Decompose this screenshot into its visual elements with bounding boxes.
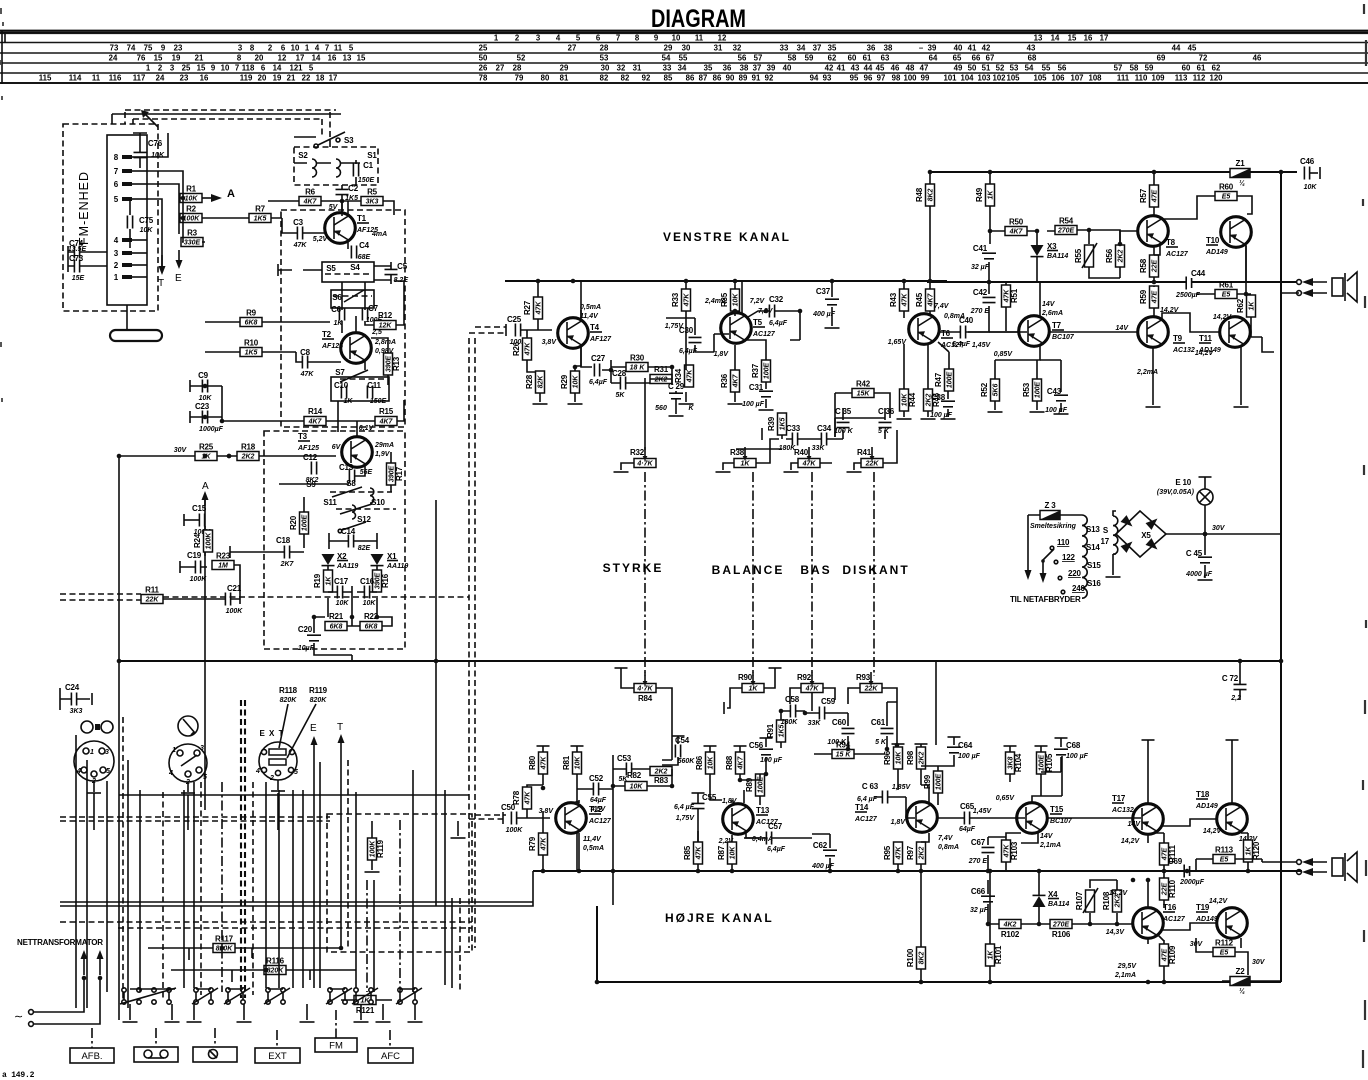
capacitor C59	[808, 697, 836, 727]
capacitor C68	[1054, 749, 1068, 755]
R52 R53 C43 grounds	[995, 360, 1061, 412]
svg-text:1: 1	[90, 749, 94, 756]
svg-text:10K: 10K	[199, 395, 213, 402]
svg-text:R29: R29	[560, 374, 569, 389]
capacitor C55	[692, 803, 705, 808]
svg-text:A: A	[227, 188, 235, 200]
svg-text:10K: 10K	[1304, 184, 1318, 191]
svg-text:C57: C57	[768, 822, 783, 831]
bus dashdot x222	[221, 782, 223, 992]
svg-text:AFC: AFC	[381, 1051, 400, 1062]
svg-text:X2: X2	[337, 552, 347, 561]
svg-text:C15: C15	[192, 504, 207, 513]
svg-text:R44: R44	[908, 392, 917, 407]
ground C45	[1198, 579, 1213, 581]
svg-text:47K: 47K	[686, 369, 693, 384]
capacitor C6	[331, 305, 345, 327]
resistor R62	[1236, 295, 1256, 317]
transistor T2	[321, 330, 396, 363]
transistor T10	[1205, 217, 1251, 256]
ground C31	[759, 409, 774, 411]
svg-text:C5: C5	[397, 262, 408, 271]
svg-text:C61: C61	[871, 718, 886, 727]
pin7 bus	[147, 171, 183, 242]
switch bank EXT	[264, 988, 290, 1004]
capacitor C5	[385, 262, 409, 284]
svg-text:1,75V: 1,75V	[676, 815, 696, 822]
svg-text:47K: 47K	[540, 837, 547, 852]
terminal bar C24	[91, 693, 93, 705]
svg-text:6,4µF: 6,4µF	[952, 341, 971, 348]
capacitor C18	[276, 536, 295, 568]
ground C37	[825, 327, 840, 329]
C14 wires	[329, 533, 377, 549]
svg-text:R103: R103	[1010, 841, 1019, 860]
svg-text:E: E	[310, 723, 317, 734]
T2 emitter to R13	[364, 359, 366, 370]
T1 collector up	[341, 213, 343, 216]
arrow E	[175, 250, 183, 284]
svg-text:2K7: 2K7	[280, 561, 295, 568]
resistor R46	[924, 389, 942, 411]
capacitor C25	[507, 315, 527, 346]
svg-text:R86: R86	[695, 755, 704, 770]
svg-text:R81: R81	[562, 755, 571, 770]
terminal bar C15	[183, 514, 185, 526]
svg-text:C13: C13	[339, 463, 354, 472]
C46 lead	[1310, 172, 1318, 174]
svg-text:S8: S8	[346, 479, 356, 488]
fuse Z 3	[1040, 501, 1060, 520]
resistor R119 (panel)	[368, 838, 386, 860]
ground bar C68	[1055, 737, 1068, 739]
svg-text:2K2: 2K2	[654, 377, 668, 384]
svg-text:C43: C43	[1047, 387, 1062, 396]
transistor T4	[558, 304, 612, 348]
svg-text:C64: C64	[958, 741, 973, 750]
svg-text:R40: R40	[794, 448, 809, 457]
antenna input arrow	[141, 110, 158, 127]
capacitor C2	[336, 184, 359, 202]
bus wire x184	[183, 790, 185, 988]
svg-text:T1: T1	[357, 214, 367, 223]
svg-text:30V: 30V	[174, 447, 188, 454]
svg-text:R52: R52	[980, 382, 989, 397]
svg-text:T11: T11	[1199, 334, 1212, 343]
ground R41	[847, 471, 862, 473]
svg-text:R99: R99	[923, 774, 932, 789]
svg-text:5: 5	[294, 769, 298, 776]
lamp E 10	[1157, 478, 1213, 505]
resistor R121	[354, 996, 376, 1016]
svg-text:Z2: Z2	[1236, 967, 1246, 976]
svg-text:R113: R113	[1215, 846, 1234, 855]
svg-text:T6: T6	[941, 329, 951, 338]
svg-text:47K: 47K	[695, 846, 702, 861]
svg-text:100K: 100K	[183, 216, 201, 223]
svg-text:C69: C69	[1168, 857, 1183, 866]
svg-text:14V: 14V	[1116, 325, 1130, 332]
R121 wires	[341, 999, 392, 1001]
svg-text:4: 4	[255, 768, 260, 775]
svg-text:C66: C66	[971, 887, 986, 896]
C18 wires	[230, 551, 304, 553]
svg-text:47K: 47K	[524, 791, 531, 806]
resistor R85	[683, 842, 703, 864]
ground R46	[921, 418, 936, 420]
resistor R35	[720, 289, 740, 311]
svg-text:1,8V: 1,8V	[891, 819, 907, 826]
resistor R82	[625, 771, 647, 791]
svg-text:220: 220	[1068, 569, 1081, 578]
svg-text:15 K: 15 K	[836, 752, 852, 759]
svg-text:0,5mA: 0,5mA	[583, 845, 604, 852]
dash-dot stems to label boxes	[92, 1010, 390, 1048]
R91 wires	[780, 713, 782, 748]
svg-text:4K7: 4K7	[737, 755, 744, 770]
svg-text:R53: R53	[1022, 382, 1031, 397]
capacitor C33	[792, 433, 797, 446]
record player icon	[178, 716, 198, 736]
svg-text:R93: R93	[856, 673, 871, 682]
svg-text:14,2V: 14,2V	[1209, 898, 1229, 905]
svg-text:AC132: AC132	[1172, 347, 1195, 354]
svg-text:T10: T10	[1206, 236, 1220, 245]
svg-text:2K2: 2K2	[1117, 249, 1124, 263]
svg-text:47K: 47K	[895, 846, 902, 861]
mains input terminals	[14, 978, 100, 1026]
svg-text:47K: 47K	[540, 756, 547, 771]
terminal bar C50	[502, 812, 504, 824]
svg-text:DIAGRAM: DIAGRAM	[651, 5, 746, 33]
resistor R53	[1022, 379, 1042, 401]
resistor R18	[237, 443, 259, 461]
C66 wires	[987, 880, 989, 924]
svg-text:5 K: 5 K	[875, 739, 887, 746]
svg-text:∼: ∼	[14, 1011, 23, 1023]
capacitor C35	[837, 422, 850, 427]
switch ground stem x244	[243, 1004, 245, 1020]
svg-text:R18: R18	[241, 443, 256, 452]
svg-text:R17: R17	[395, 466, 404, 481]
svg-text:C4: C4	[359, 241, 370, 250]
svg-text:T17: T17	[1112, 794, 1126, 803]
ground R38	[716, 471, 731, 473]
svg-text:AF125: AF125	[297, 445, 319, 452]
lead C57 to T13	[744, 837, 759, 839]
R100 wires	[920, 871, 922, 982]
svg-text:5 K: 5 K	[878, 428, 890, 435]
svg-text:Smeltesikring: Smeltesikring	[1030, 523, 1077, 530]
svg-text:E5: E5	[1220, 950, 1229, 957]
C40 wires	[940, 331, 1019, 333]
label box AFC	[368, 1048, 413, 1063]
switch box S6	[331, 290, 374, 308]
svg-text:S4: S4	[350, 263, 360, 272]
svg-text:R87: R87	[717, 845, 726, 860]
speaker terminal L2	[1297, 291, 1302, 296]
svg-text:4·7K: 4·7K	[636, 461, 653, 468]
svg-text:10K: 10K	[151, 152, 165, 159]
pin 2	[114, 261, 147, 270]
svg-text:R25: R25	[199, 443, 214, 452]
svg-text:R79: R79	[528, 836, 537, 851]
C50 to T12	[517, 809, 550, 818]
ground bar R90	[769, 667, 782, 669]
bus wire x374	[373, 880, 375, 992]
svg-text:4K2: 4K2	[1003, 922, 1017, 929]
lamp top bar	[1199, 476, 1212, 478]
bus dashed x460	[459, 898, 461, 990]
svg-text:47K: 47K	[535, 301, 542, 316]
R9 R10 leads	[205, 322, 330, 352]
R50 wires	[990, 230, 1037, 232]
svg-text:R12: R12	[378, 311, 393, 320]
bus wire x303	[302, 790, 304, 988]
svg-text:R9: R9	[246, 309, 257, 318]
svg-text:150E: 150E	[370, 398, 387, 405]
pin 1	[114, 273, 147, 282]
svg-text:C27: C27	[591, 354, 606, 363]
rail to T1	[341, 201, 343, 213]
svg-text:820K: 820K	[310, 697, 328, 704]
svg-text:6,4 µF: 6,4 µF	[674, 804, 695, 811]
svg-text:30V: 30V	[1212, 525, 1226, 532]
svg-text:2: 2	[269, 775, 274, 782]
svg-text:R51: R51	[1010, 288, 1019, 303]
R61 wires	[1196, 294, 1251, 295]
node A lower arrow	[202, 481, 210, 505]
svg-text:1K: 1K	[741, 461, 751, 468]
R117 wires	[148, 948, 341, 960]
svg-text:10K: 10K	[363, 600, 377, 607]
capacitor C16	[360, 577, 376, 607]
svg-text:820K: 820K	[280, 697, 298, 704]
resistor R44	[900, 389, 918, 411]
mid rail 282	[927, 281, 1296, 283]
svg-text:C44: C44	[1191, 269, 1206, 278]
svg-text:22E: 22E	[1151, 259, 1158, 273]
svg-text:AC127: AC127	[752, 331, 776, 338]
svg-text:T7: T7	[1052, 321, 1062, 330]
resistor R80	[528, 752, 548, 774]
ground R34	[679, 403, 694, 405]
ground switch x130	[123, 1021, 138, 1023]
svg-text:C21: C21	[227, 584, 242, 593]
ground C38	[941, 418, 956, 420]
terminal strip ruled lines	[0, 33, 1368, 35]
svg-text:R45: R45	[915, 292, 924, 307]
bus wire x356	[355, 792, 357, 988]
ground R28	[533, 403, 548, 405]
svg-text:29mA: 29mA	[374, 442, 394, 449]
svg-text:BA114: BA114	[1047, 253, 1068, 260]
wires C73 C74	[68, 246, 107, 272]
bus dashed x123	[122, 717, 124, 1002]
svg-text:0,4mA: 0,4mA	[752, 836, 773, 843]
svg-text:1000µF: 1000µF	[199, 426, 224, 433]
dashed horizontal y817	[60, 817, 330, 821]
svg-text:14,2V: 14,2V	[1203, 828, 1223, 835]
capacitor C44	[1175, 269, 1206, 299]
capacitor C14	[341, 527, 371, 552]
R51 wires	[1005, 282, 1007, 331]
bus dashed x253	[252, 782, 254, 995]
svg-text:180K: 180K	[781, 719, 799, 726]
X4 wires	[1038, 871, 1040, 924]
svg-text:7,2V: 7,2V	[750, 298, 766, 305]
mid vertical bus x436	[435, 500, 437, 906]
R96 R98 R99 stems	[898, 744, 938, 805]
svg-text:R84: R84	[638, 694, 653, 703]
svg-text:330E: 330E	[184, 240, 201, 247]
FM unit outer dashed box	[63, 124, 158, 311]
svg-text:E: E	[175, 273, 182, 284]
resistor R45	[915, 289, 935, 311]
resistor R112	[1213, 939, 1235, 957]
resistor R79	[528, 833, 548, 855]
svg-text:X5: X5	[1141, 531, 1151, 540]
supply bar T18	[1226, 739, 1239, 741]
svg-text:BAS: BAS	[800, 563, 831, 577]
secondary to bridge	[1113, 511, 1116, 575]
ground R53	[1030, 411, 1045, 413]
capacitor C63	[882, 791, 887, 804]
svg-text:C 72: C 72	[1222, 674, 1239, 683]
lamp wires	[1204, 477, 1206, 534]
capacitor C10	[334, 381, 353, 405]
bridge output 30V	[1165, 533, 1281, 535]
svg-text:AC127: AC127	[1162, 916, 1186, 923]
bus wire x413	[412, 770, 414, 992]
T4 emitter to R29 C27	[575, 345, 592, 371]
svg-text:R102: R102	[1001, 930, 1020, 939]
svg-text:C12: C12	[303, 453, 318, 462]
svg-text:R42: R42	[856, 380, 871, 389]
svg-text:C17: C17	[334, 577, 349, 586]
svg-text:T15: T15	[1050, 805, 1064, 814]
node E arrow	[310, 723, 318, 760]
resistor R59	[1139, 286, 1159, 308]
bank link row	[130, 988, 415, 990]
label box gramophone	[193, 1047, 237, 1062]
svg-text:R19: R19	[313, 573, 322, 588]
resistor R26	[512, 338, 532, 360]
resistor R101	[986, 944, 1004, 966]
svg-text:47K: 47K	[901, 293, 908, 308]
C9 C23 leads	[190, 380, 222, 423]
capacitor C67	[968, 838, 995, 865]
svg-text:T4: T4	[590, 323, 600, 332]
resistor R9	[240, 309, 262, 327]
resistor R36	[720, 370, 740, 392]
C72 wires	[1239, 661, 1241, 700]
T1 emitter down	[347, 241, 349, 249]
resistor R87	[717, 842, 737, 864]
svg-text:30V: 30V	[1252, 959, 1266, 966]
svg-text:5: 5	[106, 768, 110, 775]
svg-text:AF127: AF127	[589, 336, 612, 343]
bus wire x445	[444, 790, 446, 985]
svg-text:R26: R26	[512, 341, 521, 356]
svg-text:56E: 56E	[360, 469, 373, 476]
R42 to C35 C36 row	[835, 418, 885, 437]
svg-text:6K8: 6K8	[245, 320, 258, 327]
R84 wires	[621, 668, 672, 760]
svg-text:150E: 150E	[358, 177, 375, 184]
svg-text:NETTRANSFORMATOR: NETTRANSFORMATOR	[17, 938, 103, 947]
svg-text:2,1mA: 2,1mA	[1114, 972, 1136, 979]
capacitor C38	[930, 393, 955, 419]
horizontal bus y906	[60, 871, 533, 906]
svg-text:1K: 1K	[1248, 301, 1255, 311]
svg-text:270 E: 270 E	[970, 308, 990, 315]
svg-text:1,8V: 1,8V	[722, 798, 738, 805]
bus wire x293	[292, 790, 294, 988]
svg-text:R6: R6	[305, 188, 316, 197]
arrow into terminal L1	[1302, 278, 1327, 286]
switch S6 arm	[344, 290, 364, 302]
R27 top	[537, 281, 539, 297]
svg-text:C 36: C 36	[878, 407, 895, 416]
svg-text:BALANCE: BALANCE	[712, 563, 785, 577]
svg-text:R15: R15	[379, 407, 394, 416]
resistor R1	[180, 185, 202, 203]
ground under R119	[365, 871, 380, 873]
resistor R52	[980, 379, 1000, 401]
T16 T19 links	[1148, 923, 1241, 948]
ground R36	[728, 403, 743, 405]
svg-text:122: 122	[1062, 553, 1075, 562]
wire pin8 to C76	[133, 133, 168, 168]
svg-text:17: 17	[1101, 537, 1110, 546]
svg-text:C8: C8	[300, 348, 311, 357]
ground R44	[897, 418, 912, 420]
svg-text:29,5V: 29,5V	[1117, 963, 1138, 970]
T12 wires	[577, 798, 579, 871]
svg-text:R120: R120	[1252, 841, 1261, 860]
scan marks right edge	[1363, 4, 1366, 1068]
svg-text:1,9V: 1,9V	[375, 451, 391, 458]
svg-text:S13: S13	[1086, 525, 1100, 534]
svg-text:82K: 82K	[537, 375, 544, 389]
svg-text:R34: R34	[674, 368, 683, 383]
R90 wires	[730, 668, 775, 700]
svg-text:11,4V: 11,4V	[580, 313, 599, 320]
trimmer R55	[1074, 243, 1097, 268]
bus dashed pair x241	[240, 700, 242, 998]
T2 wires	[356, 316, 388, 385]
bus wire x279	[278, 790, 280, 988]
R58 wires	[1153, 246, 1155, 282]
resistor R29	[560, 371, 580, 393]
resistor R27	[523, 297, 543, 319]
bus dashed x163	[162, 792, 164, 998]
T11 emitter ground	[1240, 347, 1242, 405]
svg-text:100 µF: 100 µF	[1045, 407, 1068, 414]
svg-text:820K: 820K	[267, 968, 285, 975]
transformer arrows	[81, 950, 104, 975]
svg-text:64µF: 64µF	[590, 797, 607, 804]
svg-text:R106: R106	[1052, 930, 1071, 939]
svg-text:10K: 10K	[707, 756, 714, 770]
svg-text:14,2V: 14,2V	[1121, 838, 1141, 845]
resistor R116	[264, 957, 286, 975]
T6 bottom wires	[904, 342, 949, 417]
svg-text:7,4V: 7,4V	[938, 835, 954, 842]
svg-text:R47: R47	[934, 372, 943, 387]
resistor R47	[934, 369, 954, 391]
